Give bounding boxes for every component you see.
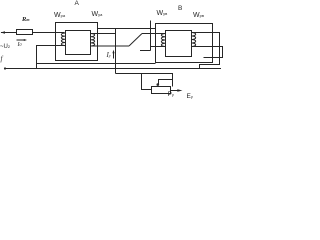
- arrowhead input left: [1, 31, 6, 34]
- label P: [168, 92, 174, 99]
- wire Wyb bottom: [151, 46, 166, 48]
- wire bottom horizontal to B: [37, 63, 156, 65]
- wire vertical left of B: [150, 21, 152, 51]
- label Wya: [92, 11, 103, 18]
- junction dot wiper: [157, 83, 160, 86]
- winding Wpa (A left): [61, 33, 65, 46]
- winding Wya (A right): [91, 34, 95, 46]
- outer box B: [156, 24, 213, 63]
- wire to pot left: [142, 74, 152, 90]
- label R7: [22, 17, 29, 24]
- core B: [166, 31, 192, 57]
- wire f line: [5, 68, 222, 70]
- wire control bottom: [116, 74, 173, 87]
- wire Wpa bottom to left loop: [37, 46, 66, 69]
- wire Wya bottom: [91, 45, 130, 47]
- wire to Wyb: [142, 33, 166, 35]
- label ~U2: [0, 44, 10, 50]
- label f: [1, 56, 3, 63]
- wire box A to node: [98, 28, 156, 30]
- arrow I0: [17, 39, 25, 41]
- label B: [178, 6, 182, 13]
- core A: [66, 31, 91, 55]
- wire vertical node Iy: [115, 29, 117, 74]
- label A: [75, 1, 79, 8]
- winding Wpb (B right): [192, 33, 196, 47]
- wire pot right out: [171, 90, 178, 92]
- wire Wya top: [91, 33, 116, 35]
- label Wpa: [54, 12, 65, 19]
- label Ey: [187, 94, 193, 101]
- outer box A: [56, 23, 98, 61]
- wire input top line: [1, 32, 65, 34]
- wire Wpb top: [192, 33, 220, 69]
- wire wiper loop: [159, 80, 173, 85]
- label Wpb: [193, 12, 204, 19]
- terminal dot f: [4, 67, 6, 69]
- resistor R7: [17, 30, 33, 35]
- arrow Iy up: [113, 52, 115, 59]
- wire Wpb bottom: [192, 47, 223, 58]
- winding Wyb (B left): [161, 34, 165, 47]
- potentiometer P: [152, 87, 171, 94]
- wire stub: [140, 50, 151, 52]
- arrowhead to Ey: [177, 89, 182, 92]
- wire diagonal: [129, 34, 142, 47]
- label Wyb: [157, 10, 168, 17]
- label Iy: [107, 52, 111, 59]
- label I0: [18, 42, 22, 48]
